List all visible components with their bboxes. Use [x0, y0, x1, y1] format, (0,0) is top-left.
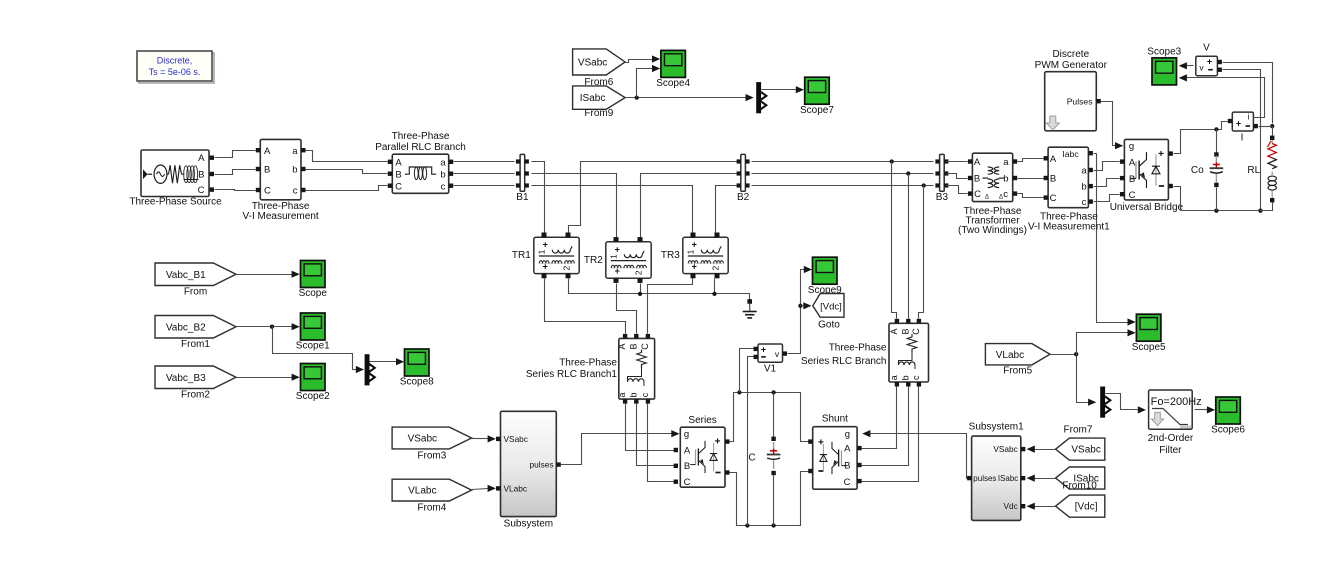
svg-text:+: + — [1236, 118, 1241, 128]
svg-text:B: B — [264, 165, 270, 176]
svg-text:2: 2 — [562, 265, 572, 270]
svg-text:Scope: Scope — [299, 288, 328, 299]
svg-text:Series RLC Branch1: Series RLC Branch1 — [526, 369, 618, 380]
svg-text:Co: Co — [1191, 165, 1204, 176]
svg-text:Universal Bridge: Universal Bridge — [1110, 202, 1184, 213]
svg-text:I: I — [1241, 133, 1244, 144]
svg-text:b: b — [1003, 174, 1008, 185]
svg-text:Parallel RLC Branch: Parallel RLC Branch — [375, 142, 466, 153]
svg-text:VLabc: VLabc — [408, 486, 436, 497]
svg-text:c: c — [911, 375, 921, 380]
svg-text:c: c — [1003, 189, 1008, 200]
svg-text:B: B — [628, 343, 638, 349]
svg-text:b: b — [628, 392, 638, 397]
svg-text:+: + — [715, 437, 721, 448]
svg-text:Scope8: Scope8 — [400, 377, 434, 388]
svg-text:Scope7: Scope7 — [800, 105, 834, 116]
svg-text:Δ: Δ — [985, 195, 989, 201]
svg-text:V1: V1 — [764, 364, 777, 375]
svg-text:A: A — [889, 328, 899, 334]
svg-text:A: A — [1050, 154, 1057, 165]
svg-text:+: + — [1207, 56, 1212, 66]
svg-text:Series RLC Branch: Series RLC Branch — [801, 356, 887, 367]
svg-text:Iabc: Iabc — [1062, 149, 1079, 159]
svg-text:A: A — [395, 158, 402, 169]
svg-text:C: C — [1050, 193, 1057, 204]
svg-text:C: C — [1129, 190, 1136, 201]
svg-text:Three-Phase: Three-Phase — [559, 358, 617, 369]
svg-text:B3: B3 — [936, 192, 949, 203]
svg-text:(Two Windings): (Two Windings) — [958, 225, 1027, 236]
svg-text:TR1: TR1 — [512, 250, 531, 261]
svg-text:Subsystem1: Subsystem1 — [969, 421, 1024, 432]
svg-text:B1: B1 — [516, 192, 529, 203]
svg-text:C: C — [198, 185, 205, 196]
svg-text:A: A — [264, 146, 271, 157]
svg-text:A: A — [844, 444, 851, 455]
svg-text:B: B — [198, 169, 204, 180]
svg-text:VSabc: VSabc — [504, 434, 528, 444]
svg-text:c: c — [441, 182, 446, 193]
svg-text:Vabc_B3: Vabc_B3 — [166, 373, 206, 384]
svg-text:C: C — [911, 328, 921, 335]
svg-text:+: + — [761, 345, 766, 355]
svg-text:Vdc: Vdc — [1004, 501, 1018, 511]
svg-text:From: From — [184, 286, 207, 297]
svg-text:2: 2 — [634, 270, 644, 275]
svg-text:b: b — [900, 375, 910, 380]
svg-text:a: a — [1081, 166, 1087, 177]
svg-text:C: C — [395, 182, 402, 193]
svg-text:VSabc: VSabc — [1071, 445, 1100, 456]
svg-text:From3: From3 — [417, 450, 446, 461]
svg-text:TR3: TR3 — [661, 250, 680, 261]
svg-text:g: g — [845, 429, 850, 440]
svg-text:Scope5: Scope5 — [1132, 342, 1166, 353]
svg-text:C: C — [748, 452, 755, 463]
svg-text:VSabc: VSabc — [408, 434, 437, 445]
svg-text:Vabc_B1: Vabc_B1 — [166, 270, 206, 281]
svg-text:VLabc: VLabc — [996, 350, 1024, 361]
svg-text:[Vdc]: [Vdc] — [820, 301, 842, 312]
svg-text:Discrete,: Discrete, — [157, 56, 193, 66]
svg-text:From10: From10 — [1062, 480, 1097, 491]
svg-text:+: + — [615, 266, 620, 276]
svg-text:A: A — [684, 445, 691, 456]
svg-text:B: B — [1050, 174, 1056, 185]
svg-text:pulses: pulses — [973, 474, 996, 483]
svg-text:Filter: Filter — [1159, 445, 1182, 456]
svg-text:b: b — [292, 165, 297, 176]
svg-text:a: a — [617, 392, 627, 397]
svg-text:+: + — [692, 262, 697, 272]
svg-text:+: + — [543, 262, 548, 272]
svg-text:Δ: Δ — [999, 195, 1003, 201]
svg-text:Scope3: Scope3 — [1147, 46, 1181, 57]
svg-text:B: B — [395, 170, 401, 181]
svg-text:Subsystem: Subsystem — [504, 519, 553, 530]
svg-text:TR2: TR2 — [584, 255, 603, 266]
svg-text:a: a — [292, 146, 298, 157]
svg-text:Pulses: Pulses — [1067, 96, 1093, 106]
svg-text:From2: From2 — [181, 389, 210, 400]
svg-text:Scope6: Scope6 — [1211, 425, 1245, 436]
svg-text:c: c — [293, 186, 298, 197]
svg-text:[Vdc]: [Vdc] — [1075, 502, 1098, 513]
svg-text:Three-Phase: Three-Phase — [392, 131, 450, 142]
svg-text:a: a — [889, 375, 899, 380]
svg-text:A: A — [198, 153, 205, 164]
svg-text:+: + — [692, 240, 697, 250]
svg-text:C: C — [640, 343, 650, 350]
svg-text:PWM Generator: PWM Generator — [1035, 60, 1108, 71]
svg-text:Scope1: Scope1 — [296, 341, 330, 352]
svg-text:c: c — [1082, 197, 1087, 208]
svg-text:ISabc: ISabc — [580, 93, 606, 104]
svg-text:g: g — [684, 429, 689, 440]
svg-text:Scope4: Scope4 — [656, 78, 690, 89]
svg-text:Series: Series — [688, 415, 716, 426]
svg-text:VLabc: VLabc — [504, 483, 528, 493]
svg-text:+: + — [1158, 149, 1164, 160]
svg-text:B: B — [900, 328, 910, 334]
svg-text:a: a — [1003, 157, 1009, 168]
svg-text:A: A — [974, 157, 981, 168]
svg-text:+: + — [543, 240, 548, 250]
svg-text:V: V — [1203, 43, 1210, 54]
svg-text:VSabc: VSabc — [993, 444, 1017, 454]
svg-text:V-I Measurement1: V-I Measurement1 — [1028, 221, 1110, 232]
svg-text:1: 1 — [537, 249, 547, 254]
svg-text:C: C — [684, 477, 691, 488]
svg-text:A: A — [617, 343, 627, 349]
svg-text:1: 1 — [609, 254, 619, 259]
svg-text:pulses: pulses — [530, 460, 554, 470]
svg-text:a: a — [440, 158, 446, 169]
svg-text:B: B — [1129, 174, 1135, 185]
svg-text:From5: From5 — [1003, 366, 1032, 377]
svg-text:C: C — [264, 186, 271, 197]
svg-text:Scope2: Scope2 — [296, 391, 330, 402]
svg-text:VSabc: VSabc — [578, 57, 607, 68]
svg-text:2nd-Order: 2nd-Order — [1148, 433, 1194, 444]
svg-text:b: b — [1081, 182, 1086, 193]
svg-text:2: 2 — [711, 265, 721, 270]
svg-text:V-I Measurement: V-I Measurement — [243, 211, 319, 222]
svg-text:C: C — [844, 477, 851, 488]
svg-text:From1: From1 — [181, 339, 210, 350]
svg-text:+: + — [615, 244, 620, 254]
svg-text:B: B — [974, 174, 980, 185]
svg-text:Shunt: Shunt — [822, 414, 848, 425]
svg-text:Goto: Goto — [818, 320, 840, 331]
svg-text:b: b — [440, 170, 445, 181]
svg-text:From7: From7 — [1064, 424, 1093, 435]
svg-text:B2: B2 — [737, 192, 750, 203]
svg-text:ISabc: ISabc — [998, 474, 1018, 483]
svg-text:Three-Phase: Three-Phase — [829, 343, 887, 354]
svg-text:1: 1 — [686, 249, 696, 254]
svg-text:Three-Phase Source: Three-Phase Source — [129, 197, 222, 208]
svg-text:Fo=200Hz: Fo=200Hz — [1151, 396, 1202, 408]
svg-text:From4: From4 — [417, 502, 446, 513]
svg-text:From9: From9 — [584, 108, 613, 119]
svg-text:i: i — [1248, 111, 1250, 121]
svg-text:Ts = 5e-06 s.: Ts = 5e-06 s. — [149, 67, 201, 77]
svg-text:A: A — [1129, 157, 1136, 168]
svg-text:g: g — [1129, 141, 1134, 152]
svg-text:RL: RL — [1247, 165, 1260, 176]
svg-text:C: C — [974, 189, 981, 200]
svg-text:c: c — [640, 392, 650, 397]
svg-text:B: B — [684, 461, 690, 472]
svg-text:Discrete: Discrete — [1052, 49, 1089, 60]
svg-text:Vabc_B2: Vabc_B2 — [166, 322, 206, 333]
